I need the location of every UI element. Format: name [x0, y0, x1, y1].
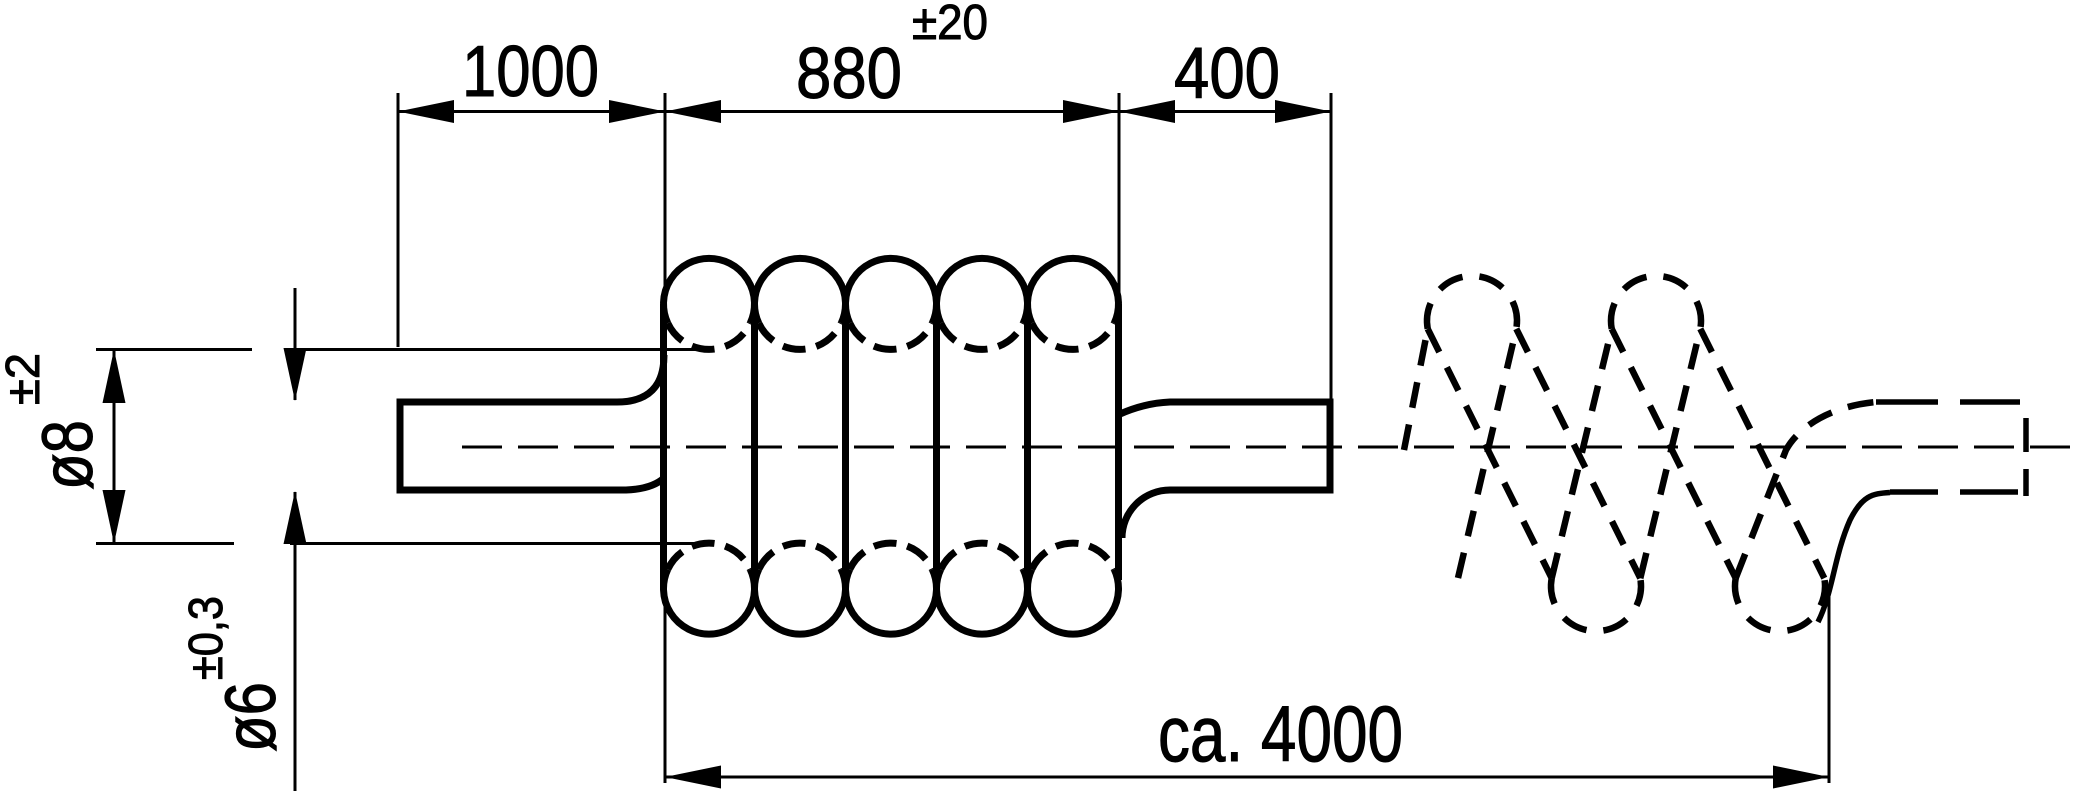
- svg-text:ø8: ø8: [29, 420, 108, 490]
- dia6 dimension line lower part: [294, 492, 297, 791]
- svg-text:880: 880: [796, 34, 902, 114]
- helix front strand turn2 left: [1612, 329, 1736, 578]
- extension line right of ca.4000 dim: [1828, 597, 1831, 783]
- exit cable dashed end cap: [2023, 418, 2029, 496]
- extension line between 1000 and 880 dims (also ca.4000 left extension): [664, 93, 667, 783]
- dia8 upper extension line (two segments with gap at dia6 dim line): [96, 348, 252, 351]
- helix back strand into turn1 right: [1458, 329, 1516, 578]
- helix front strand turn2 right: [1700, 329, 1824, 578]
- dashed helix extended cable: [1404, 276, 1876, 631]
- arrowhead 400 right: [1275, 100, 1331, 123]
- svg-text:1000: 1000: [462, 32, 599, 112]
- arrowhead 1000 right: [609, 100, 665, 123]
- left cable straight section outline: [400, 355, 664, 490]
- coil inner vertical 3: [933, 304, 940, 589]
- arrowhead ca.4000 right: [1773, 766, 1829, 789]
- coil bottom dashed back arcs: [668, 543, 1114, 569]
- svg-text:±2: ±2: [0, 353, 50, 405]
- helix front strand turn1 left: [1428, 329, 1552, 578]
- extension line left of 1000 dim: [397, 93, 400, 347]
- coil top solid caps: [664, 258, 1119, 323]
- extension line right of 400 dim: [1330, 93, 1333, 401]
- helix back strand turn1-2 left: [1552, 329, 1612, 578]
- svg-text:ø6: ø6: [212, 682, 291, 752]
- helix exit bottom solid curve: [1818, 493, 1890, 623]
- arrowhead dia6 up to cable bottom: [284, 491, 307, 544]
- right cable straight section outline: [1120, 402, 1330, 538]
- coil inner vertical 4: [1024, 304, 1031, 589]
- arrowhead 880 left: [665, 100, 721, 123]
- arrowhead 400 left: [1119, 100, 1175, 123]
- coil inner vertical 1: [751, 304, 758, 589]
- bottom dimension line ca.4000: [665, 776, 1829, 779]
- exit cable top edge dashed straight: [1876, 399, 2020, 405]
- dia8 lower extension line: [96, 542, 234, 545]
- arrowhead dia6 down to cable top: [284, 348, 307, 401]
- svg-text:±20: ±20: [912, 0, 988, 50]
- svg-text:ca. 4000: ca. 4000: [1158, 689, 1403, 778]
- helix bottom cap turn 2: [1735, 578, 1825, 631]
- dia8 dimension line vertical: [113, 350, 116, 544]
- helix front strand turn1 right: [1516, 329, 1640, 578]
- arrowhead dia8 up: [103, 350, 126, 404]
- coil top dashed back arcs: [668, 323, 1114, 349]
- coil right outer edge: [1115, 304, 1122, 580]
- centerline dash-dot axis: [462, 446, 2070, 449]
- top dimension line: [398, 110, 1331, 113]
- exit cable bottom edge dashed straight: [1890, 489, 2018, 495]
- arrowhead 1000 left: [398, 100, 454, 123]
- helix top cap turn 2: [1611, 276, 1701, 329]
- helix top cap turn 1: [1427, 276, 1517, 329]
- coil left outer edge: [660, 304, 667, 589]
- helix bottom cap turn 1: [1551, 578, 1641, 631]
- coil bottom solid caps: [664, 569, 1119, 634]
- dia6 dimension line upper part: [294, 288, 297, 400]
- coil inner vertical 2: [842, 304, 849, 589]
- arrowhead ca.4000 left: [665, 766, 721, 789]
- extension line between 880 and 400 dims: [1118, 93, 1121, 402]
- arrowhead 880 right: [1063, 100, 1119, 123]
- helix back strand into turn1 left cut at axis: [1404, 329, 1428, 450]
- svg-text:400: 400: [1174, 34, 1280, 114]
- helix exit top transition curve: [1736, 402, 1876, 578]
- svg-text:±0,3: ±0,3: [180, 596, 233, 680]
- arrowhead dia8 down: [103, 490, 126, 544]
- helix back strand turn1-2 right: [1640, 329, 1700, 578]
